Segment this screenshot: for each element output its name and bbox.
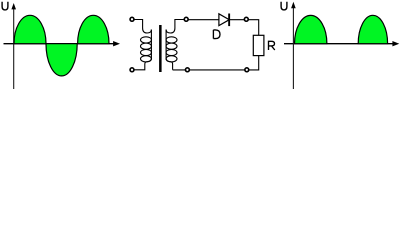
terminal primary bottom xyxy=(130,68,134,72)
right rectified hump 1 xyxy=(295,15,327,43)
wire: secondary coil exit to bottom rail xyxy=(166,58,173,70)
terminal secondary top xyxy=(184,17,188,21)
terminal output top xyxy=(244,17,248,21)
left graph horizontal axis (t) xyxy=(4,41,121,46)
left graph label U xyxy=(2,2,8,10)
transformer core xyxy=(159,25,162,72)
terminal output bottom xyxy=(245,68,249,72)
terminal secondary bottom xyxy=(185,68,189,72)
right graph vertical axis (U) xyxy=(291,2,296,89)
secondary coil loops xyxy=(166,37,177,62)
primary coil loops xyxy=(141,37,152,62)
secondary coil spine xyxy=(165,30,167,58)
wire: top rail secondary terminal to diode and load corner xyxy=(189,20,259,36)
right rectified hump 2 xyxy=(358,15,387,43)
wire: bottom rail xyxy=(173,56,259,70)
right graph horizontal axis (t) xyxy=(284,41,399,46)
label R xyxy=(269,41,275,50)
left graph vertical axis (U) xyxy=(11,3,16,89)
left sine hump 3 (positive) xyxy=(78,15,109,43)
resistor R body xyxy=(253,35,264,55)
left sine hump 1 (positive) xyxy=(14,15,46,43)
wire: primary top terminal to coil xyxy=(134,20,151,34)
left sine hump 2 (negative) xyxy=(46,44,77,76)
label D xyxy=(213,30,220,39)
terminal primary top xyxy=(130,17,134,21)
wire: primary coil exit to bottom terminal xyxy=(134,58,151,70)
diode D triangle xyxy=(219,14,229,26)
right graph label U xyxy=(281,2,287,10)
wire: secondary coil entry from top terminal xyxy=(166,20,184,34)
primary coil spine xyxy=(150,30,152,58)
diode D cathode bar xyxy=(228,14,230,27)
